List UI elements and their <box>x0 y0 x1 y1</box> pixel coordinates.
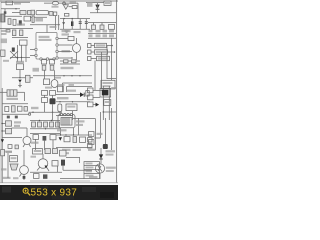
junction <box>103 111 104 112</box>
inductor L1 box <box>31 10 35 15</box>
wire v x44.5 <box>44 70 46 79</box>
CN5 divider3 <box>84 173 100 175</box>
connector CN1 <box>88 44 92 48</box>
capacitor CX1 <box>49 12 53 16</box>
ground GND2 <box>18 85 22 87</box>
CN5 text4 <box>86 175 94 177</box>
junction <box>63 18 64 19</box>
connector box S2 <box>88 144 93 148</box>
label above R8 <box>16 61 24 63</box>
wire v x55.4 <box>54 16 56 31</box>
wire v x24.5 <box>24 92 26 101</box>
thermistor TH1 <box>63 5 68 10</box>
L2 scallop2 <box>64 113 66 115</box>
capacitor C15 <box>12 106 16 112</box>
diode D8 bar <box>83 93 85 97</box>
diode D5 <box>12 48 15 52</box>
wire y170.3 <box>63 169 92 171</box>
label text left of D4 <box>87 2 93 7</box>
connector CN2 <box>88 50 92 54</box>
label text X3 <box>106 154 114 156</box>
wire CN1 <box>91 45 95 47</box>
label text X4 <box>106 167 116 169</box>
wire Q4 down <box>99 173 101 179</box>
wire v x72.5 <box>72 111 74 120</box>
L2 scallop3 <box>67 113 69 115</box>
CN5 text3 <box>86 171 93 173</box>
IC U1 body <box>36 33 57 60</box>
IC U1 pin notch bottom 3 <box>53 58 55 60</box>
label text2 <box>14 125 20 127</box>
label text PC2 <box>62 50 71 52</box>
label box OUT3 <box>97 56 110 60</box>
relay RL1 <box>72 6 77 9</box>
label 4.7 1.5A <box>7 98 19 100</box>
label text FBT <box>105 101 110 103</box>
wire y123.5 <box>2 123 5 125</box>
wire D4 <box>97 3 99 13</box>
transistor Q2 <box>20 166 29 175</box>
wire v x54.5 <box>54 70 56 79</box>
wire corner v x62.5 <box>62 83 64 92</box>
IC U1 pin notch left 2 <box>35 54 37 56</box>
wire v x107 <box>106 46 108 80</box>
L2 hatch3 <box>66 118 68 126</box>
IC U1 pin notch bottom 2 <box>46 58 48 60</box>
label text top center <box>50 26 57 28</box>
label text left low <box>1 168 7 170</box>
resistor R26 <box>56 122 60 127</box>
transistor Q3 <box>38 159 48 169</box>
ground GND2 bar <box>19 86 21 88</box>
zener ZD1 <box>18 80 21 83</box>
diode D2 <box>63 2 66 5</box>
junction <box>60 134 61 135</box>
junction node A <box>15 8 16 9</box>
label AC IN <box>14 2 21 5</box>
wire y128 mid <box>12 127 28 129</box>
table row1 box c <box>103 30 108 33</box>
wire bus y112.2 <box>29 111 63 113</box>
diode D9 <box>96 103 100 107</box>
connector box P1 <box>88 88 94 93</box>
resistor R12 <box>5 107 9 112</box>
choke L2 winding <box>61 118 72 126</box>
wire Q1 base <box>26 128 28 137</box>
connector box P3 <box>88 102 94 107</box>
wire P1 link <box>93 89 103 91</box>
wire y157.5 <box>66 157 80 159</box>
wire v x52.5 <box>52 95 54 98</box>
label text row S <box>57 129 67 131</box>
L2 hatch1 <box>62 118 64 126</box>
wire CN2 <box>91 51 95 53</box>
table row1 box b <box>96 30 101 33</box>
junction <box>73 134 74 135</box>
wire y115.6 <box>56 115 73 117</box>
Q4 internal lead <box>98 166 102 172</box>
table row2 box d <box>109 34 114 37</box>
capacitor C14 <box>50 65 54 70</box>
transformer T1 frame <box>100 88 111 97</box>
junction <box>52 112 53 113</box>
wire v x78.5 <box>78 118 80 135</box>
varistor RV1 <box>4 11 7 14</box>
ground GND1 <box>65 30 69 32</box>
wire U1 pin4 out <box>58 57 72 59</box>
label text in box <box>67 106 75 108</box>
label text col left <box>1 30 8 32</box>
wire y37.5 <box>12 37 28 39</box>
wire y92.3 a <box>0 91 7 93</box>
RL2 hatch2 <box>13 90 15 96</box>
wire link op <box>68 6 72 8</box>
hatch T0 <box>2 14 4 22</box>
wire right bus y22.5 <box>88 22 116 24</box>
label text right of U1 b <box>62 33 70 35</box>
label text right of U1 <box>62 30 71 32</box>
wire v x78 <box>77 3 79 19</box>
wire corner h y118.6 <box>73 118 96 120</box>
wire main bus y75.8 <box>33 75 92 77</box>
label text <box>1 39 8 44</box>
label text row <box>61 67 74 69</box>
table row2 box c <box>103 34 108 37</box>
choke L2 body <box>58 115 75 128</box>
ground GND1 bar <box>66 31 68 33</box>
wire bus y128.8 <box>30 128 60 130</box>
capacitor C2 <box>13 19 16 25</box>
label box U2 <box>10 156 18 162</box>
label box OUT2 <box>95 50 108 54</box>
wire ZD1 <box>19 83 21 86</box>
connector J1 <box>6 1 13 5</box>
capacitor C16 <box>24 107 27 112</box>
heatsink HS1 <box>10 164 18 170</box>
capacitor C19 <box>15 145 18 149</box>
IC U1 label line2 <box>39 39 52 41</box>
label OUT3 text <box>98 57 108 59</box>
junction <box>111 45 113 47</box>
wire y114.2 <box>2 113 28 115</box>
transistor Q4 <box>95 164 104 173</box>
magnifier icon sparkle <box>25 189 27 192</box>
regulator box U2 <box>44 79 50 85</box>
resistor R1 <box>20 11 26 15</box>
CN4 text2 <box>103 85 111 87</box>
photocoupler PC1 crosswire2 <box>10 51 18 59</box>
transistor Q1 <box>23 137 31 145</box>
table divider <box>88 32 116 34</box>
connector box P2 <box>88 95 94 100</box>
resistor R10 <box>64 60 69 63</box>
border frame <box>0 0 118 183</box>
label text bottom left <box>2 177 11 179</box>
IC U1 pin notch left 1 <box>35 48 37 50</box>
diode D1 <box>19 20 22 25</box>
resistor R16 <box>42 98 48 103</box>
wire right bus y12.8 <box>90 12 116 14</box>
label text X5 <box>106 170 114 172</box>
wire v x79.5 <box>79 158 81 164</box>
resistor R27 <box>33 135 39 140</box>
capacitor C18 can <box>58 104 62 112</box>
wire v x58.7 <box>58 15 60 30</box>
wire Q1 collector <box>29 144 31 147</box>
wire mid-left <box>5 15 22 17</box>
diode D11 <box>43 136 47 141</box>
resistor R34 <box>45 149 51 154</box>
label above R17 <box>58 84 65 86</box>
capacitor C1 <box>8 19 11 25</box>
label text W2 <box>73 149 82 151</box>
label text mid <box>36 18 44 22</box>
resistor R30 <box>80 137 86 142</box>
wire top AC rail <box>1 1 30 3</box>
CN5 divider2 <box>84 169 100 171</box>
label OUT2 text <box>96 51 107 53</box>
wire OUT2 <box>108 51 115 53</box>
wire rail2 <box>1 8 20 10</box>
relay RL2 <box>7 90 17 96</box>
wire v x95 <box>94 61 96 91</box>
capacitor C11 <box>42 60 47 64</box>
label text <box>5 151 13 153</box>
transformer T1 right leg <box>108 86 110 120</box>
wire corner h y83 <box>63 82 93 84</box>
label text W3 <box>62 152 69 154</box>
diode D12 <box>59 137 62 141</box>
bar texture patch <box>2 187 11 193</box>
resistor R29 <box>64 137 70 142</box>
capacitor C5 <box>79 21 82 23</box>
wire v x35.5 <box>35 139 37 150</box>
capacitor C21 electrolytic <box>103 144 108 149</box>
table row2 box b <box>96 34 101 37</box>
junction <box>2 130 3 131</box>
transformer T1 core black <box>102 90 109 96</box>
L2 hatch2 <box>64 118 66 126</box>
junction <box>51 120 52 121</box>
wire y147.5 <box>56 147 92 149</box>
capacitor C7 <box>92 25 96 29</box>
label text U <box>6 151 12 153</box>
wire CN3 <box>91 58 97 60</box>
wire bus y172.3 <box>30 171 62 173</box>
wire Q1 emitter <box>23 144 25 147</box>
wire bus y101.8 <box>56 101 90 103</box>
label text near W1 <box>55 77 61 79</box>
wire y181 <box>30 180 90 182</box>
bar texture patch3 <box>100 192 114 198</box>
label box bridge <box>64 14 69 17</box>
wire v x102 <box>101 23 103 26</box>
label text center low <box>45 87 52 89</box>
wire top right rail <box>86 2 104 4</box>
svg-text:553 x 937: 553 x 937 <box>31 188 78 199</box>
junction <box>59 101 60 102</box>
IC U1 pin notch bottom 1 <box>40 58 42 60</box>
wire row link <box>12 12 20 14</box>
resistor R37 <box>34 174 40 179</box>
resistor R19 <box>6 121 12 126</box>
label B+ text <box>105 2 110 4</box>
IC U1 pin notch right 2 <box>56 44 58 46</box>
wire v x53 <box>52 140 54 150</box>
label box OUT1 <box>95 43 107 47</box>
connector box S1 <box>88 138 93 142</box>
wire bus y135 <box>56 134 92 136</box>
junction <box>45 128 46 129</box>
wire y133.5 <box>30 133 60 135</box>
wire P3 link <box>93 103 96 105</box>
diode D13 <box>23 176 26 179</box>
label box V1 <box>33 149 43 154</box>
magnifier icon handle <box>28 193 31 196</box>
winding W1 <box>51 80 58 88</box>
diode D10 <box>1 139 4 142</box>
wire left bus vertical <box>1 88 3 183</box>
resistor R23 <box>38 122 42 127</box>
wire v x100.5 <box>100 112 102 138</box>
wire v x111.5 <box>111 38 113 80</box>
capacitor CX2 <box>53 12 56 16</box>
capacitor C10 <box>20 30 23 36</box>
diode D8 <box>80 92 84 97</box>
junction <box>19 77 20 78</box>
fuse F1 wire <box>44 2 78 4</box>
resistor R33 <box>1 150 5 156</box>
wire v x44.5 d <box>44 141 46 150</box>
junction <box>17 57 18 58</box>
wire R8 down <box>19 70 21 78</box>
resistor R3 <box>6 30 10 32</box>
wire OUT1 <box>107 45 113 47</box>
label text X6 <box>89 176 98 178</box>
wire U1 pin3 out <box>58 51 72 53</box>
Q4 internal lead2 <box>98 166 101 171</box>
photocoupler PC1 crosswire <box>10 51 18 59</box>
RL2 hatch <box>9 90 11 96</box>
wire C6 <box>85 19 87 30</box>
resistor R35 <box>53 149 58 154</box>
wire corner h y86.5 <box>67 86 93 88</box>
resistor R20 <box>6 128 12 133</box>
label text left mid <box>3 60 9 62</box>
wire Q3 base <box>42 154 44 159</box>
transformer T1 left leg <box>102 86 104 120</box>
resistor R36 <box>52 161 58 166</box>
wire y137.5 <box>2 137 22 139</box>
wire L2 leg2 <box>73 128 75 135</box>
wire corner v x66.5 <box>66 87 68 93</box>
wire v x44.5 b <box>44 95 46 97</box>
resistor R6 <box>1 50 5 56</box>
wire v x93.5 <box>93 23 95 26</box>
wire y103.8 <box>2 103 28 105</box>
junction <box>71 75 72 76</box>
fuse F1 <box>52 2 58 5</box>
capacitor C8 <box>100 25 104 29</box>
resistor R11 <box>72 60 77 63</box>
wire Q2 collector up <box>23 150 25 166</box>
wire v x21.5 <box>21 45 23 62</box>
CN5 text2 <box>86 167 94 169</box>
label text bottom left2 <box>13 177 19 179</box>
resistor R32 <box>89 140 95 145</box>
filter module FL1 <box>36 11 48 15</box>
wire PC2 up <box>76 38 78 44</box>
wire v x63 <box>62 166 64 171</box>
label text <box>14 121 21 123</box>
capacitor C4 electrolytic <box>71 21 73 26</box>
diode D4 bar <box>96 8 100 10</box>
label box right <box>109 25 115 30</box>
wire Q2 lead down <box>23 174 25 180</box>
wire U1 top pin <box>46 25 48 33</box>
junction <box>79 75 80 76</box>
magnifier icon lens <box>23 188 28 193</box>
wire L2 leg1 <box>60 128 62 135</box>
capacitor C3 <box>32 16 34 22</box>
capacitor C5 plate <box>79 22 82 24</box>
capacitor C9 <box>13 30 16 36</box>
wire bus y28.6 <box>0 28 33 30</box>
wire v x26 <box>25 45 27 62</box>
wire U1 left pin <box>30 49 35 51</box>
label right of L2 b <box>76 124 83 126</box>
wire y131 <box>2 130 5 132</box>
wire v x8 bottom-left <box>7 153 9 178</box>
wire P2 link <box>93 96 100 98</box>
wire v x95.5 <box>95 119 97 150</box>
capacitor C20 <box>73 137 77 143</box>
resistor R13 <box>18 106 23 111</box>
label text X2 <box>106 150 116 152</box>
diode D15 <box>99 154 103 158</box>
resistor R38 <box>60 150 67 156</box>
CN5 text1 <box>86 163 93 165</box>
label text row <box>57 97 69 99</box>
label F1 value <box>52 6 59 8</box>
resistor R28 <box>50 135 56 140</box>
junction <box>63 75 64 76</box>
wire y94.6 <box>56 94 80 96</box>
label OUT1 text <box>96 44 106 46</box>
transformer T0 core <box>1 14 5 22</box>
L2 scallop4 <box>70 113 72 115</box>
junction <box>72 18 73 19</box>
wire y64 <box>60 63 80 65</box>
diode D14 <box>43 174 47 178</box>
wire Q3 emitter <box>37 167 40 171</box>
table row2 box a <box>89 34 93 37</box>
label right of L2 <box>76 120 85 122</box>
resistor R18 <box>86 91 89 96</box>
capacitor C22 electrolytic <box>61 160 65 166</box>
resistor R21 <box>8 145 12 149</box>
wire v x57.5 <box>57 166 59 172</box>
IC U1 pin notch right 1 <box>56 37 58 39</box>
capacitor C17 electrolytic <box>50 98 56 104</box>
capacitor C12 <box>50 60 55 64</box>
wire U1 left pin2 <box>30 55 35 57</box>
resistor R17 <box>58 86 64 92</box>
resistor R9 <box>26 75 31 82</box>
label text right of U1 c <box>74 31 81 33</box>
wire v x52.5 d <box>52 104 54 120</box>
capacitor C6 plate <box>85 22 88 24</box>
